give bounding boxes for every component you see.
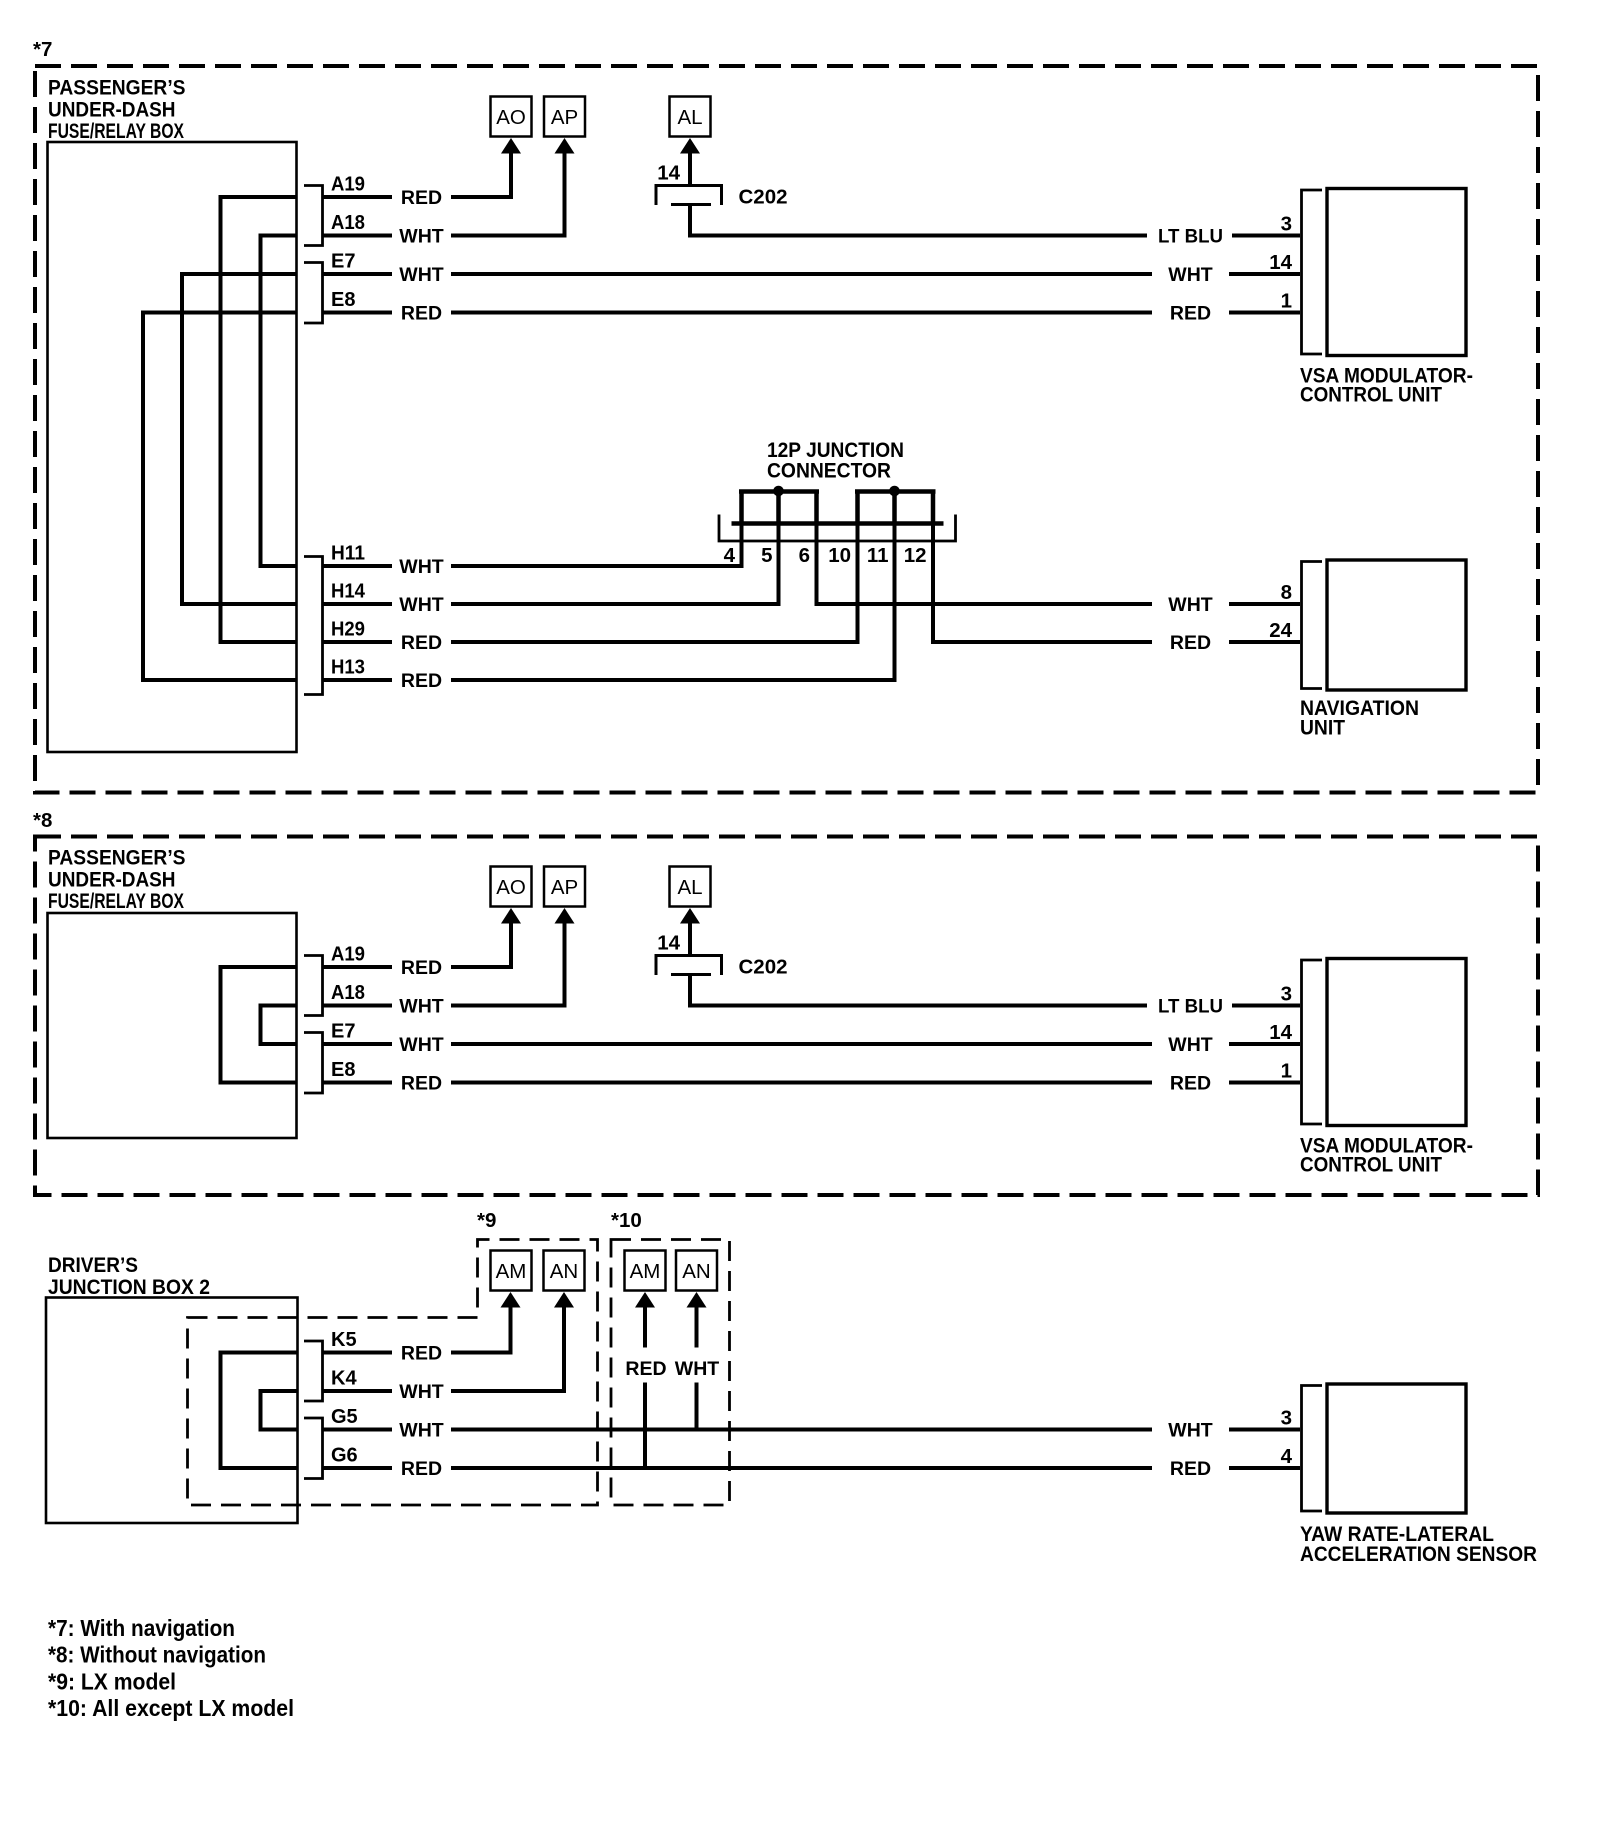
wire G5 stub xyxy=(323,1428,393,1432)
svg-text:RED: RED xyxy=(1170,1458,1211,1480)
wire E7 WHT long run (2) xyxy=(451,1042,1152,1046)
label DRIVER'S JUNCTION BOX 2 xyxy=(48,1253,210,1299)
connector bracket at yaw rate-lateral acceleration sensor xyxy=(1302,1386,1323,1512)
internal wire A19 to H29 xyxy=(221,197,298,642)
svg-text:AO: AO xyxy=(496,876,526,899)
svg-text:AN: AN xyxy=(550,1260,578,1283)
svg-text:E8: E8 xyxy=(331,1059,355,1081)
svg-text:H29: H29 xyxy=(331,619,365,641)
svg-text:24: 24 xyxy=(1269,619,1292,642)
svg-text:WHT: WHT xyxy=(675,1358,719,1380)
svg-text:CONTROL UNIT: CONTROL UNIT xyxy=(1300,1153,1442,1177)
wire A19 stub (2) xyxy=(323,965,393,969)
wire A18 stub xyxy=(323,234,393,238)
svg-text:ACCELERATION SENSOR: ACCELERATION SENSOR xyxy=(1300,1542,1537,1566)
svg-text:RED: RED xyxy=(1170,632,1211,654)
arrow to AM (*10) xyxy=(635,1292,655,1308)
svg-text:*7: With navigation: *7: With navigation xyxy=(48,1615,235,1641)
svg-text:WHT: WHT xyxy=(1168,1420,1212,1442)
svg-text:14: 14 xyxy=(657,932,680,955)
connector destination box AL xyxy=(670,97,711,137)
svg-text:5: 5 xyxy=(761,544,772,567)
wire E8 RED long run xyxy=(451,311,1152,315)
svg-text:E8: E8 xyxy=(331,289,355,311)
svg-text:PASSENGER’S: PASSENGER’S xyxy=(48,76,186,100)
connector bracket at VSA modulator-control unit xyxy=(1302,190,1323,354)
wire G5 to yaw sensor pin 3 xyxy=(1229,1428,1300,1432)
svg-text:12: 12 xyxy=(904,544,927,567)
svg-text:FUSE/RELAY BOX: FUSE/RELAY BOX xyxy=(48,119,184,143)
svg-text:AL: AL xyxy=(677,876,702,899)
svg-text:PASSENGER’S: PASSENGER’S xyxy=(48,846,186,870)
dashed harness option boundary *8 (without navigation) xyxy=(35,837,1538,1196)
wire G6 RED long run xyxy=(451,1466,1152,1470)
label VSA MODULATOR-CONTROL UNIT xyxy=(1300,364,1473,407)
junction bridge pins 10-11-12 xyxy=(855,492,936,524)
svg-text:AM: AM xyxy=(630,1260,661,1283)
wire from AM (*10) to G6 xyxy=(643,1383,647,1469)
svg-text:CONTROL UNIT: CONTROL UNIT xyxy=(1300,383,1442,407)
svg-text:K5: K5 xyxy=(331,1329,357,1351)
wire E8 RED long run (2) xyxy=(451,1081,1152,1085)
svg-text:WHT: WHT xyxy=(399,594,443,616)
wire E7 stub xyxy=(323,272,393,276)
svg-text:WHT: WHT xyxy=(399,226,443,248)
svg-text:RED: RED xyxy=(625,1358,666,1380)
connector bracket G5/G6 xyxy=(304,1418,323,1479)
connector destination box AL (2) xyxy=(670,867,711,907)
wire to navigation pin 8 xyxy=(1229,602,1300,606)
junction dot pin 11 xyxy=(889,486,900,497)
connector bracket E7/E8 xyxy=(304,263,323,324)
wire A19 RED to AO xyxy=(451,153,511,197)
svg-text:14: 14 xyxy=(657,162,680,185)
wire G5 WHT long run xyxy=(451,1428,1152,1432)
connector destination box AO xyxy=(491,97,532,137)
svg-text:*7: *7 xyxy=(33,38,52,61)
svg-text:C202: C202 xyxy=(739,186,788,209)
arrow to AP xyxy=(555,138,575,154)
label 12P JUNCTION CONNECTOR xyxy=(767,438,904,483)
wire H29 stub xyxy=(323,640,393,644)
svg-text:RED: RED xyxy=(401,957,442,979)
wire H11 WHT to junction pin 4 xyxy=(451,525,742,566)
svg-text:WHT: WHT xyxy=(1168,594,1212,616)
svg-text:RED: RED xyxy=(401,187,442,209)
wire K5 RED to AM xyxy=(451,1308,511,1353)
passenger's under-dash fuse/relay box outline (2) xyxy=(48,913,297,1138)
svg-text:4: 4 xyxy=(1281,1445,1293,1468)
svg-text:*9: *9 xyxy=(477,1209,496,1232)
wire A19 stub xyxy=(323,195,393,199)
dashed harness option boundary *7 (with navigation) xyxy=(35,66,1538,793)
svg-text:WHT: WHT xyxy=(399,1381,443,1403)
svg-text:DRIVER’S: DRIVER’S xyxy=(48,1253,138,1277)
svg-text:RED: RED xyxy=(401,1343,442,1365)
wire AL to C202 xyxy=(688,153,692,184)
svg-text:A19: A19 xyxy=(331,174,365,196)
svg-text:AN: AN xyxy=(682,1260,710,1283)
svg-text:A18: A18 xyxy=(331,982,365,1004)
wire G6 to yaw sensor pin 4 xyxy=(1229,1466,1300,1470)
svg-text:UNDER-DASH: UNDER-DASH xyxy=(48,868,176,892)
label PASSENGER'S UNDER-DASH FUSE/RELAY BOX (2) xyxy=(48,846,186,914)
svg-text:6: 6 xyxy=(799,544,810,567)
connector destination box AP xyxy=(544,97,585,137)
VSA modulator-control unit box xyxy=(1327,189,1466,356)
arrow to AL xyxy=(680,138,700,154)
wire LT BLU to VSA pin 3 (2) xyxy=(1232,1004,1300,1008)
svg-text:14: 14 xyxy=(1269,1021,1292,1044)
label NAVIGATION UNIT xyxy=(1300,696,1419,740)
internal wire K5 to G6 xyxy=(221,1353,298,1469)
svg-text:RED: RED xyxy=(1170,1073,1211,1095)
svg-text:3: 3 xyxy=(1281,213,1292,236)
in-line connector C202 symbol xyxy=(655,186,724,206)
connector bracket E7/E8 (2) xyxy=(304,1033,323,1094)
wire E7 stub (2) xyxy=(323,1042,393,1046)
svg-text:WHT: WHT xyxy=(399,556,443,578)
svg-text:AM: AM xyxy=(496,1260,527,1283)
internal wire E7 to H14 xyxy=(182,274,297,604)
svg-text:UNIT: UNIT xyxy=(1300,716,1345,740)
svg-text:AL: AL xyxy=(677,106,702,129)
wire G6 stub xyxy=(323,1466,393,1470)
arrow to AN (*10) xyxy=(687,1292,707,1308)
svg-text:*10: All except LX model: *10: All except LX model xyxy=(48,1695,294,1721)
wire from AN (*10) to G5 xyxy=(695,1383,699,1430)
12P junction connector housing xyxy=(719,515,956,542)
svg-text:RED: RED xyxy=(401,303,442,325)
connector bracket at navigation unit xyxy=(1302,562,1323,689)
connector destination box AM (*9) xyxy=(491,1251,532,1291)
connector destination box AN (*9) xyxy=(544,1251,585,1291)
svg-text:*10: *10 xyxy=(611,1209,642,1232)
svg-text:*9: LX model: *9: LX model xyxy=(48,1669,176,1695)
internal wire K4 to G5 xyxy=(261,1391,298,1430)
wire junction pin 6 to navigation xyxy=(817,525,1153,604)
svg-text:FUSE/RELAY BOX: FUSE/RELAY BOX xyxy=(48,889,184,913)
in-line connector C202 symbol (2) xyxy=(655,956,724,976)
svg-text:K4: K4 xyxy=(331,1368,357,1390)
wire H14 stub xyxy=(323,602,393,606)
internal wire E8 to H13 xyxy=(143,313,297,681)
arrow to AP (2) xyxy=(555,908,575,924)
svg-text:WHT: WHT xyxy=(399,1034,443,1056)
wire A19 RED to AO (2) xyxy=(451,923,511,967)
svg-text:WHT: WHT xyxy=(1168,1034,1212,1056)
svg-text:WHT: WHT xyxy=(399,264,443,286)
wire AL to C202 (2) xyxy=(688,923,692,954)
junction dot pin 5 xyxy=(773,486,784,497)
wire E7 to VSA pin 14 (2) xyxy=(1229,1042,1300,1046)
svg-text:RED: RED xyxy=(401,1073,442,1095)
internal wire A18 to E7 (2) xyxy=(261,1006,298,1045)
svg-text:RED: RED xyxy=(401,670,442,692)
dashed option boundary *9 (LX model) xyxy=(188,1240,598,1506)
arrow to AL (2) xyxy=(680,908,700,924)
connector destination box AO (2) xyxy=(491,867,532,907)
wire from AN (*10) upper xyxy=(695,1308,699,1348)
svg-text:14: 14 xyxy=(1269,251,1292,274)
wire to navigation pin 24 xyxy=(1229,640,1300,644)
wire K4 WHT to AN xyxy=(451,1308,564,1392)
svg-text:WHT: WHT xyxy=(1168,264,1212,286)
svg-text:C202: C202 xyxy=(739,956,788,979)
arrow to AN (*9) xyxy=(554,1292,574,1308)
svg-text:UNDER-DASH: UNDER-DASH xyxy=(48,98,176,122)
svg-text:JUNCTION BOX 2: JUNCTION BOX 2 xyxy=(48,1275,210,1299)
wire A18 WHT to AP xyxy=(451,153,565,236)
svg-text:WHT: WHT xyxy=(399,996,443,1018)
connector bracket at VSA modulator-control unit (2) xyxy=(1302,960,1323,1124)
svg-text:LT BLU: LT BLU xyxy=(1158,226,1223,248)
wire C202 LT BLU run (2) xyxy=(690,976,1147,1006)
junction bridge pins 4-5-6 xyxy=(739,492,819,524)
wire H11 stub xyxy=(323,564,393,568)
VSA modulator-control unit box (2) xyxy=(1327,959,1466,1126)
label YAW RATE-LATERAL ACCELERATION SENSOR xyxy=(1300,1522,1537,1566)
wire K5 stub xyxy=(323,1351,393,1355)
label VSA MODULATOR-CONTROL UNIT (2) xyxy=(1300,1134,1473,1177)
wire E8 stub (2) xyxy=(323,1081,393,1085)
svg-text:4: 4 xyxy=(724,544,736,567)
driver's junction box 2 outline xyxy=(46,1298,298,1524)
connector destination box AM (*10) xyxy=(625,1251,666,1291)
connector bracket A19/A18 xyxy=(304,186,323,246)
wire H14 WHT to junction pin 5 xyxy=(451,525,779,604)
arrow to AM (*9) xyxy=(501,1292,521,1308)
arrow to AO xyxy=(501,138,521,154)
wire E7 WHT long run xyxy=(451,272,1152,276)
wire E8 stub xyxy=(323,311,393,315)
svg-text:A19: A19 xyxy=(331,944,365,966)
wire E8 to VSA pin 1 (2) xyxy=(1229,1081,1300,1085)
arrow to AO (2) xyxy=(501,908,521,924)
svg-text:10: 10 xyxy=(828,544,851,567)
wire junction pin 12 to navigation xyxy=(933,525,1152,642)
wire E8 to VSA pin 1 xyxy=(1229,311,1300,315)
wire A18 WHT to AP (2) xyxy=(451,923,565,1006)
connector destination box AN (*10) xyxy=(676,1251,717,1291)
svg-text:AO: AO xyxy=(496,106,526,129)
wire H13 RED to junction pin 11 xyxy=(451,525,895,680)
svg-text:G6: G6 xyxy=(331,1445,358,1467)
connector bracket A19/A18 (2) xyxy=(304,956,323,1016)
svg-text:H11: H11 xyxy=(331,543,365,565)
yaw rate-lateral acceleration sensor box xyxy=(1327,1384,1466,1513)
label PASSENGER'S UNDER-DASH FUSE/RELAY BOX xyxy=(48,76,186,144)
navigation unit box xyxy=(1327,560,1466,690)
dashed option boundary *10 (all except LX model) xyxy=(611,1240,730,1506)
svg-text:RED: RED xyxy=(401,1458,442,1480)
wire H13 stub xyxy=(323,678,393,682)
wire from AM (*10) upper xyxy=(643,1308,647,1348)
svg-text:8: 8 xyxy=(1281,581,1292,604)
passenger's under-dash fuse/relay box outline xyxy=(48,142,297,752)
connector bracket H11/H14/H29/H13 xyxy=(304,557,323,695)
connector destination box AP (2) xyxy=(544,867,585,907)
internal wire A18 to H11 xyxy=(261,236,298,567)
wire C202 LT BLU run xyxy=(690,206,1147,236)
svg-text:CONNECTOR: CONNECTOR xyxy=(767,459,891,483)
svg-text:1: 1 xyxy=(1281,1060,1292,1083)
wire LT BLU to VSA pin 3 xyxy=(1232,234,1300,238)
internal wire A19 to E8 (2) xyxy=(221,967,298,1083)
wire K4 stub xyxy=(323,1389,393,1393)
svg-text:WHT: WHT xyxy=(399,1420,443,1442)
svg-text:*8: *8 xyxy=(33,809,52,832)
svg-text:G5: G5 xyxy=(331,1406,358,1428)
svg-text:AP: AP xyxy=(551,876,578,899)
svg-text:RED: RED xyxy=(401,632,442,654)
svg-text:E7: E7 xyxy=(331,251,355,273)
svg-text:A18: A18 xyxy=(331,212,365,234)
svg-text:LT BLU: LT BLU xyxy=(1158,996,1223,1018)
wire H29 RED to junction pin 10 xyxy=(451,525,858,642)
svg-text:RED: RED xyxy=(1170,303,1211,325)
svg-text:1: 1 xyxy=(1281,290,1292,313)
svg-text:*8: Without navigation: *8: Without navigation xyxy=(48,1642,266,1668)
svg-text:11: 11 xyxy=(867,544,889,567)
svg-text:E7: E7 xyxy=(331,1021,355,1043)
svg-text:H13: H13 xyxy=(331,657,365,679)
connector bracket K5/K4 xyxy=(304,1341,323,1401)
svg-text:3: 3 xyxy=(1281,1407,1292,1430)
svg-text:AP: AP xyxy=(551,106,578,129)
svg-text:3: 3 xyxy=(1281,983,1292,1006)
wire E7 to VSA pin 14 xyxy=(1229,272,1300,276)
wire A18 stub (2) xyxy=(323,1004,393,1008)
svg-text:H14: H14 xyxy=(331,581,366,603)
